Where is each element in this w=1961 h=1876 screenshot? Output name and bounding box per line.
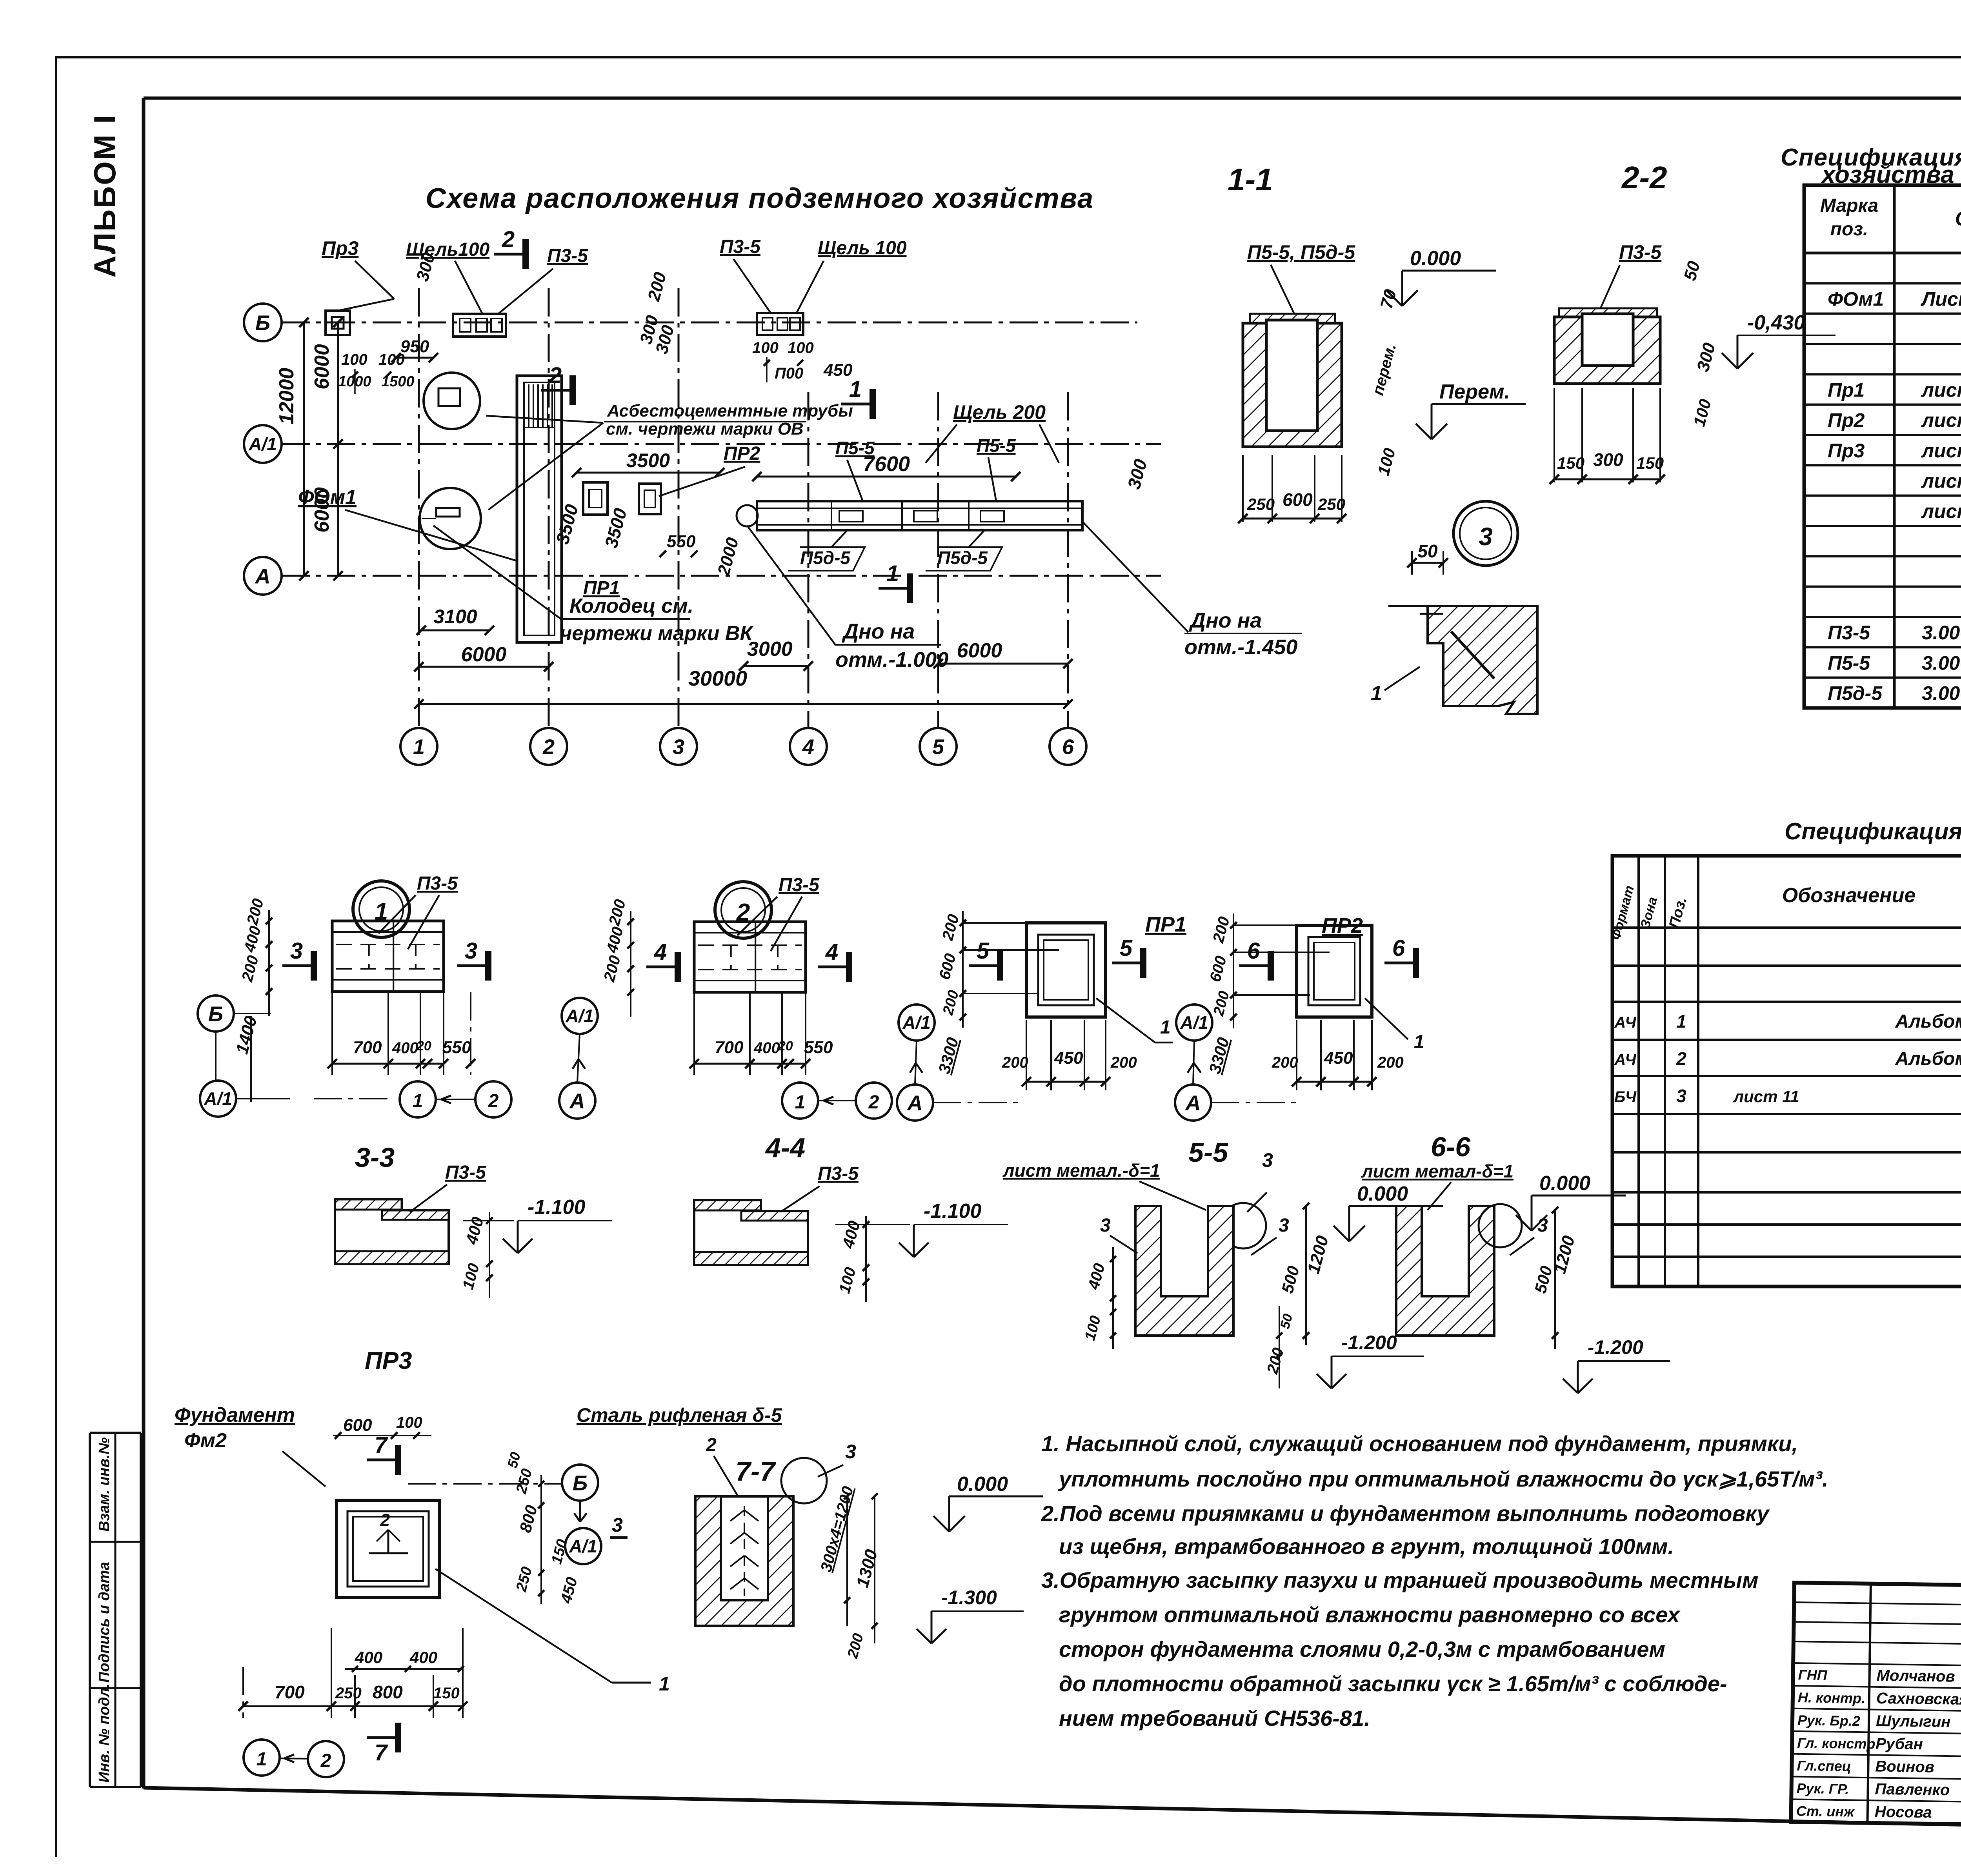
plan dim 6000 bottom1 xyxy=(414,643,553,671)
svg-text:2-2: 2-2 xyxy=(1621,160,1667,195)
svg-text:П5-5: П5-5 xyxy=(977,435,1016,456)
section 5-5 level -1.200 xyxy=(1317,1332,1424,1388)
svg-text:АЛЬБОМ I: АЛЬБОМ I xyxy=(87,114,122,278)
PR3 flag 7 bottom xyxy=(367,1723,398,1765)
svg-text:А/1: А/1 xyxy=(565,1006,594,1026)
plan dim 30000 xyxy=(414,667,1073,709)
PR3 axis line B xyxy=(408,1465,598,1522)
section 2-2 slab P3-5 xyxy=(1559,308,1657,317)
spec table header texts xyxy=(1820,195,1961,240)
svg-text:грунтом оптимальной влажности: грунтом оптимальной влажности равномерно… xyxy=(1059,1602,1681,1627)
svg-text:-0,430: -0,430 xyxy=(1747,311,1805,334)
PR3 title xyxy=(365,1347,412,1374)
svg-text:Сталь рифленая δ-5: Сталь рифленая δ-5 xyxy=(577,1404,782,1426)
svg-text:100: 100 xyxy=(788,339,814,357)
label stal riflenaya xyxy=(577,1404,782,1426)
svg-text:Схема расположения подземного: Схема расположения подземного хозяйства xyxy=(426,183,1094,214)
svg-text:А/1: А/1 xyxy=(1180,1012,1208,1033)
label dno na otm -1.450 xyxy=(1082,522,1302,659)
well circle 2 xyxy=(420,488,481,549)
dim 200 rotated top2 xyxy=(644,270,670,303)
svg-text:450: 450 xyxy=(823,360,853,380)
svg-text:до плотности обратной засыпки: до плотности обратной засыпки γск ≥ 1.65… xyxy=(1059,1671,1727,1696)
svg-text:-1.300: -1.300 xyxy=(941,1587,997,1609)
section 1-1 slab P5-5 xyxy=(1250,314,1335,323)
svg-text:1: 1 xyxy=(659,1673,670,1695)
spec PR table title xyxy=(1785,818,1961,846)
svg-text:А/1: А/1 xyxy=(248,434,277,454)
svg-text:Марка: Марка xyxy=(1820,195,1878,216)
svg-text:П3-5: П3-5 xyxy=(547,246,588,266)
dim 300 rotated pair xyxy=(636,313,678,356)
outer border left line xyxy=(55,57,57,1857)
section flag 1 upper xyxy=(841,377,873,419)
section 2-2 dim 50 xyxy=(1680,259,1704,282)
section 7-7 circle 3 xyxy=(781,1441,856,1503)
svg-text:П3-5: П3-5 xyxy=(1828,622,1870,644)
section 7-7 level -1.300 xyxy=(917,1587,1024,1643)
detail PR2 leader 1 xyxy=(1365,998,1424,1052)
channel plates box group 2 xyxy=(757,313,803,335)
svg-text:6000: 6000 xyxy=(957,639,1002,662)
label P3-5 second xyxy=(720,237,771,313)
svg-text:1: 1 xyxy=(1676,1011,1686,1032)
section 6-6 dims right xyxy=(1531,1207,1579,1349)
svg-text:П5д-5: П5д-5 xyxy=(1828,682,1883,704)
svg-text:3: 3 xyxy=(465,938,477,964)
PR3 dims bottom 700 250 800 150 xyxy=(238,1628,468,1718)
svg-text:П3-5: П3-5 xyxy=(1619,241,1662,263)
svg-text:400: 400 xyxy=(753,1039,780,1057)
title block xyxy=(1791,1583,1961,1833)
svg-text:Фм2: Фм2 xyxy=(184,1429,227,1452)
detail PR2 flags 6 xyxy=(1239,935,1416,981)
svg-text:6000: 6000 xyxy=(461,643,507,666)
detail PR1 dims left xyxy=(935,911,1059,1075)
svg-text:5: 5 xyxy=(977,938,990,964)
spec table grid xyxy=(1804,185,1961,708)
svg-text:150: 150 xyxy=(1636,454,1664,472)
section 1-1 level perem xyxy=(1416,380,1526,439)
section 1-1 title xyxy=(1228,162,1273,197)
label kolodec xyxy=(433,526,754,645)
svg-text:7-7: 7-7 xyxy=(735,1456,776,1487)
detail PR1 axis circles xyxy=(897,1004,1020,1121)
detail 1 bottom dims 700 400 20 550 xyxy=(327,992,475,1075)
svg-text:Пр1: Пр1 xyxy=(1828,379,1865,401)
svg-text:700: 700 xyxy=(353,1038,382,1057)
svg-text:3-3: 3-3 xyxy=(355,1142,395,1173)
svg-text:Щель 200: Щель 200 xyxy=(953,401,1046,423)
dim 300 rotated top1 xyxy=(413,250,438,283)
svg-text:6-6: 6-6 xyxy=(1431,1132,1471,1162)
spec table title xyxy=(1781,144,1961,188)
svg-text:2: 2 xyxy=(542,735,555,759)
svg-text:3100: 3100 xyxy=(433,606,477,628)
section 6-6 title xyxy=(1431,1132,1471,1162)
dim 300 rotated right xyxy=(1123,457,1151,491)
section 6-6 leader 3 xyxy=(1479,1204,1548,1255)
PR3 flag 7 top xyxy=(367,1432,398,1475)
svg-text:3.006.1-2/82, Вып. 1-2: 3.006.1-2/82, Вып. 1-2 xyxy=(1922,622,1961,644)
plan dim 3000 xyxy=(739,638,813,671)
svg-text:лист 11: лист 11 xyxy=(1921,409,1961,431)
svg-text:3: 3 xyxy=(1479,522,1493,551)
svg-text:2: 2 xyxy=(488,1091,499,1112)
section 5-5 leader 3 top xyxy=(1221,1149,1273,1248)
svg-text:лист 11: лист 11 xyxy=(1921,500,1961,522)
svg-text:3000: 3000 xyxy=(747,638,793,661)
column circle 1 xyxy=(400,728,437,765)
svg-text:100: 100 xyxy=(752,339,779,357)
svg-text:Альбом II: Альбом II xyxy=(1895,1011,1961,1032)
section 1-1 body xyxy=(1243,320,1342,447)
svg-text:-1.100: -1.100 xyxy=(924,1200,982,1223)
column circle 4 xyxy=(790,728,827,765)
PR3 dims top 600 100 xyxy=(333,1414,431,1439)
svg-text:Ст. инж: Ст. инж xyxy=(1796,1803,1855,1820)
svg-text:50: 50 xyxy=(1417,541,1438,561)
section 2-2 level -0.430 xyxy=(1722,311,1835,369)
svg-text:3: 3 xyxy=(290,938,303,964)
axis circle B xyxy=(244,304,282,341)
section 4-4 dims right xyxy=(836,1216,869,1302)
detail 3 drawing xyxy=(1388,606,1537,714)
section 4-4 drawing xyxy=(694,1200,808,1265)
dims 100 100 cluster left xyxy=(338,351,415,394)
svg-text:200: 200 xyxy=(1377,1054,1404,1071)
detail 1 circle xyxy=(353,881,409,937)
svg-text:Обозначение: Обозначение xyxy=(1782,884,1916,907)
svg-text:А: А xyxy=(907,1091,923,1115)
svg-text:3: 3 xyxy=(673,735,684,759)
svg-text:250: 250 xyxy=(335,1685,362,1702)
svg-text:ФОм1: ФОм1 xyxy=(298,486,357,509)
svg-text:550: 550 xyxy=(667,532,696,551)
svg-text:7: 7 xyxy=(375,1740,388,1765)
svg-text:300: 300 xyxy=(1593,449,1623,470)
pit PR1 plan box xyxy=(583,482,608,515)
label P5d-5 a xyxy=(788,530,865,571)
section 1-1 dim perem rotated xyxy=(1369,342,1399,397)
svg-text:3.006.1-2/82, Вып. 1-2: 3.006.1-2/82, Вып. 1-2 xyxy=(1922,652,1961,674)
pit Pr3 plan box xyxy=(326,311,350,335)
section 4-4 label P3-5 xyxy=(780,1163,859,1212)
pit PR2 plan box xyxy=(639,484,661,514)
svg-text:100: 100 xyxy=(396,1414,422,1431)
svg-text:3500: 3500 xyxy=(626,449,670,471)
PR3 leader 1 xyxy=(435,1569,670,1695)
PR3 flag 3 right xyxy=(610,1514,628,1538)
channel dim 7600 xyxy=(752,452,1021,481)
svg-text:400: 400 xyxy=(409,1648,437,1667)
section flag 2 lower xyxy=(541,363,573,405)
detail 2 axis circles xyxy=(559,998,598,1119)
svg-text:Фундамент: Фундамент xyxy=(175,1404,295,1427)
section 7-7 dims right xyxy=(817,1485,881,1660)
caption podpis i data xyxy=(96,1562,113,1683)
axis line A xyxy=(282,575,1161,577)
svg-text:Гл.спец: Гл.спец xyxy=(1797,1758,1851,1774)
svg-text:Пр3: Пр3 xyxy=(1828,440,1865,462)
svg-text:1: 1 xyxy=(1414,1032,1424,1052)
detail PR2 axis circles xyxy=(1175,1004,1297,1121)
label asbestos pipes xyxy=(486,401,853,510)
svg-text:А: А xyxy=(255,564,271,588)
detail circle 3 xyxy=(1453,501,1518,566)
svg-text:4: 4 xyxy=(654,939,667,965)
detail PR1 leader 1 xyxy=(1096,998,1173,1043)
plan dim 3100 xyxy=(417,606,494,635)
column line 5 xyxy=(937,392,939,728)
section 6-6 level 0.000 xyxy=(1516,1172,1626,1231)
svg-text:0.000: 0.000 xyxy=(1357,1183,1408,1205)
svg-text:1: 1 xyxy=(1371,682,1382,705)
channel run with plates P5-5 xyxy=(737,501,1082,530)
notes text xyxy=(1041,1431,1828,1730)
caption inv n podl xyxy=(96,1683,113,1783)
axis circle A1 xyxy=(244,425,282,463)
detail PR2 pit plan xyxy=(1297,925,1372,1017)
detail PR1 title xyxy=(1145,913,1186,936)
svg-text:Н. контр.: Н. контр. xyxy=(1798,1689,1866,1706)
channel plates box group 1 xyxy=(453,314,506,337)
section 2-2 body xyxy=(1554,314,1660,384)
detail 1 left dims xyxy=(232,897,272,1102)
svg-text:0.000: 0.000 xyxy=(957,1473,1008,1496)
svg-text:Инв. № подл.: Инв. № подл. xyxy=(96,1683,113,1783)
svg-text:2: 2 xyxy=(502,227,515,252)
svg-text:А: А xyxy=(569,1089,585,1113)
svg-text:550: 550 xyxy=(442,1038,471,1057)
svg-text:отм.-1.450: отм.-1.450 xyxy=(1184,635,1297,659)
label Pr1 xyxy=(583,578,620,599)
detail 1 numbered circles xyxy=(400,1081,511,1117)
svg-text:Асбестоцементные трубы: Асбестоцементные трубы xyxy=(607,401,853,420)
svg-text:А/1: А/1 xyxy=(204,1088,232,1109)
svg-text:П5-5: П5-5 xyxy=(835,438,875,458)
section flag 1 lower xyxy=(879,561,910,603)
svg-text:чертежи марки ВК: чертежи марки ВК xyxy=(560,622,754,645)
svg-text:3.Обратную засыпку пазухи и тр: 3.Обратную засыпку пазухи и траншей прои… xyxy=(1041,1568,1758,1592)
svg-text:450: 450 xyxy=(1324,1048,1353,1068)
svg-text:400: 400 xyxy=(392,1039,418,1057)
svg-text:Спецификация: Спецификация xyxy=(1785,818,1961,844)
column circle 6 xyxy=(1050,728,1086,765)
svg-text:П5-5: П5-5 xyxy=(1828,652,1870,674)
dim 950 xyxy=(391,337,438,362)
svg-text:2: 2 xyxy=(320,1750,331,1771)
label fundament Fm2 xyxy=(175,1404,326,1487)
album label xyxy=(87,114,122,278)
section 2-2 dim 100 rotated xyxy=(1690,397,1715,428)
svg-text:-1.200: -1.200 xyxy=(1588,1336,1643,1358)
PR3 dims bottom 400 400 xyxy=(345,1648,464,1672)
svg-text:П5д-5: П5д-5 xyxy=(800,548,851,568)
main plan title xyxy=(426,183,1094,214)
section flag 2 top xyxy=(494,227,526,269)
svg-text:1: 1 xyxy=(886,561,899,586)
section 6-6 drawing xyxy=(1396,1206,1494,1336)
well circle 1 xyxy=(424,373,480,429)
svg-text:ФОм1: ФОм1 xyxy=(1828,288,1884,310)
section 4-4 level -1.100 xyxy=(835,1200,1008,1257)
section 7-7 level 0.000 xyxy=(933,1473,1043,1532)
svg-text:П5-5, П5д-5: П5-5, П5д-5 xyxy=(1247,241,1355,263)
svg-text:Пр2: Пр2 xyxy=(1828,409,1865,431)
detail 2 circle xyxy=(715,882,771,938)
svg-text:нием требований СН536-81.: нием требований СН536-81. xyxy=(1059,1706,1370,1730)
svg-text:150: 150 xyxy=(1557,454,1584,472)
label FOm1 xyxy=(298,486,517,561)
svg-text:Дно на: Дно на xyxy=(842,620,915,643)
label Schel 200 xyxy=(926,401,1059,463)
detail 3 dim 50 xyxy=(1407,541,1448,575)
svg-text:0.000: 0.000 xyxy=(1410,247,1461,270)
svg-text:лист 11: лист 11 xyxy=(1733,1087,1799,1106)
svg-text:А/1: А/1 xyxy=(569,1536,597,1556)
section 3-3 title xyxy=(355,1142,395,1173)
svg-text:Щель 100: Щель 100 xyxy=(818,238,907,258)
axis line B xyxy=(282,322,1137,324)
plan left dim 6000 lower label xyxy=(311,487,333,533)
section 7-7 title xyxy=(735,1456,776,1487)
svg-text:Сахновская: Сахновская xyxy=(1876,1690,1961,1708)
svg-text:4: 4 xyxy=(802,735,814,759)
detail 1 axis circle A1 xyxy=(200,1081,392,1117)
svg-text:лист 11: лист 11 xyxy=(1921,470,1961,492)
svg-text:150: 150 xyxy=(433,1685,460,1702)
section 3-3 dims right xyxy=(459,1212,493,1298)
label dno na otm -1.000 xyxy=(747,526,948,671)
section 1-1 bottom dims 250 600 250 xyxy=(1238,455,1346,523)
svg-text:ПР1: ПР1 xyxy=(1145,913,1186,936)
svg-text:АЧ: АЧ xyxy=(1614,1014,1636,1031)
svg-text:200: 200 xyxy=(1110,1054,1137,1071)
svg-text:6: 6 xyxy=(1247,938,1260,964)
spec PR header texts xyxy=(1608,866,1961,942)
PR3 numbered circles xyxy=(244,1740,344,1777)
dims 100 100 cluster right xyxy=(752,339,853,382)
svg-text:20: 20 xyxy=(778,1039,793,1054)
svg-text:П3-5: П3-5 xyxy=(779,875,820,895)
svg-text:1: 1 xyxy=(849,377,862,402)
svg-text:2: 2 xyxy=(868,1092,879,1113)
svg-text:6: 6 xyxy=(1392,935,1405,961)
svg-text:Перем.: Перем. xyxy=(1439,380,1510,403)
section 7-7 drawing xyxy=(695,1496,793,1626)
svg-text:3.006.1-2/82. Вып. 1-2: 3.006.1-2/82. Вып. 1-2 xyxy=(1922,682,1961,704)
label Schel 100 second xyxy=(796,238,907,314)
svg-text:А: А xyxy=(1185,1091,1201,1115)
label PR2 with leader xyxy=(659,443,760,496)
dim 3500 horizontal xyxy=(572,449,724,477)
detail PR1 flags 5 xyxy=(969,935,1143,981)
svg-text:4: 4 xyxy=(825,939,838,965)
svg-text:Б: Б xyxy=(255,311,270,335)
section 2-2 dim 300 rotated xyxy=(1693,340,1719,373)
svg-text:1: 1 xyxy=(413,735,425,759)
section 1-1 dim 70 xyxy=(1377,287,1400,311)
svg-text:П3-5: П3-5 xyxy=(445,1162,486,1183)
detail PR1 dims bottom 200 450 200 xyxy=(1002,1020,1137,1090)
svg-text:ПР3: ПР3 xyxy=(365,1347,412,1374)
svg-text:Шулыгин: Шулыгин xyxy=(1876,1712,1951,1731)
svg-text:6000: 6000 xyxy=(311,344,333,389)
svg-text:250: 250 xyxy=(1317,495,1345,513)
svg-text:30000: 30000 xyxy=(688,667,747,690)
section 3-3 label P3-5 xyxy=(410,1162,486,1212)
section 2-2 label P3-5 xyxy=(1600,241,1662,309)
svg-text:Рук. Бр.2: Рук. Бр.2 xyxy=(1797,1712,1860,1729)
svg-text:2: 2 xyxy=(380,1510,390,1530)
svg-text:Б: Б xyxy=(573,1471,588,1495)
section 5-5 level 0.000 xyxy=(1333,1183,1443,1241)
svg-text:7: 7 xyxy=(375,1432,388,1458)
spec rows xyxy=(1828,260,1961,704)
section 5-5 drawing xyxy=(1135,1206,1233,1336)
svg-text:700: 700 xyxy=(715,1038,744,1057)
section 5-5 title xyxy=(1188,1137,1228,1168)
svg-text:1: 1 xyxy=(795,1092,806,1113)
svg-text:1: 1 xyxy=(1160,1017,1171,1038)
svg-text:3: 3 xyxy=(1262,1149,1273,1171)
svg-text:АЧ: АЧ xyxy=(1614,1051,1636,1068)
svg-text:А/1: А/1 xyxy=(902,1012,931,1033)
detail 3 leader 1 xyxy=(1371,667,1420,705)
column circle 3 xyxy=(660,728,697,765)
column line 1 xyxy=(418,288,420,728)
svg-text:П5д-5: П5д-5 xyxy=(937,548,988,568)
svg-text:ПР1: ПР1 xyxy=(583,578,620,599)
svg-text:200: 200 xyxy=(1272,1054,1298,1071)
svg-text:Подпись и дата: Подпись и дата xyxy=(96,1562,113,1683)
label Schel 100 first xyxy=(406,239,489,314)
svg-text:ПР2: ПР2 xyxy=(724,443,760,464)
svg-text:250: 250 xyxy=(1247,495,1275,513)
foundation FOm1 hatched strip xyxy=(517,376,562,642)
column line 6 xyxy=(1067,392,1069,728)
svg-text:Носова: Носова xyxy=(1875,1803,1932,1821)
svg-text:100: 100 xyxy=(341,351,367,368)
detail PR2 dims left xyxy=(1205,913,1330,1075)
svg-text:12000: 12000 xyxy=(275,368,298,425)
detail 2 label P3-5 xyxy=(737,875,820,951)
section 6-6 label list metal xyxy=(1361,1161,1513,1210)
column circle 5 xyxy=(920,728,957,765)
svg-text:поз.: поз. xyxy=(1830,219,1868,240)
svg-text:лист метал.-δ=1: лист метал.-δ=1 xyxy=(1002,1160,1160,1181)
left margin stamp boxes xyxy=(90,1433,141,1787)
svg-text:БЧ: БЧ xyxy=(1614,1088,1637,1106)
detail 2 flags 4 xyxy=(646,939,849,982)
detail 1 label P3-5 xyxy=(378,873,458,949)
svg-text:0.000: 0.000 xyxy=(1539,1172,1590,1195)
section 1-1 label P5-5 P5d-5 xyxy=(1247,241,1355,314)
svg-text:П3-5: П3-5 xyxy=(818,1163,859,1184)
column circle 2 xyxy=(530,728,567,765)
svg-text:Взам. инв.№: Взам. инв.№ xyxy=(96,1437,113,1532)
svg-text:-1.200: -1.200 xyxy=(1341,1332,1397,1354)
plan left dim 6000 upper xyxy=(311,318,343,580)
svg-text:800: 800 xyxy=(373,1682,403,1702)
svg-text:5: 5 xyxy=(932,735,944,759)
svg-text:Рук. ГР.: Рук. ГР. xyxy=(1796,1780,1849,1797)
svg-text:-1.100: -1.100 xyxy=(528,1196,586,1219)
section 7-7 leader 2 xyxy=(706,1435,737,1495)
svg-text:2: 2 xyxy=(1676,1048,1686,1069)
label Pr3 xyxy=(322,237,394,311)
